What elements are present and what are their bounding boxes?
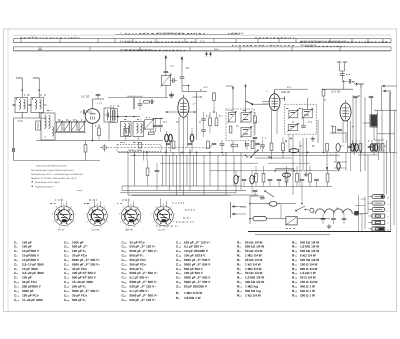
resistor R17 hang — [146, 161, 149, 187]
wire chassis h3 — [128, 194, 258, 196]
input coil L1 — [12, 98, 31, 113]
wire heater stubs — [244, 166, 328, 187]
svg-text:C₃₉: C₃₉ — [122, 285, 128, 289]
terminal T1 — [369, 195, 390, 200]
IF1 coil Lc — [240, 126, 252, 138]
wire TR1 net — [374, 110, 397, 150]
capacitor C17 — [158, 119, 163, 133]
svg-text:C₂₁: C₂₁ — [64, 267, 70, 271]
svg-text:0,1 µF 250 V~: 0,1 µF 250 V~ — [184, 245, 204, 249]
svg-text:C₄₆: C₄₆ — [176, 254, 182, 258]
svg-text:C₆: C₆ — [14, 262, 18, 266]
capacitor C52 — [342, 214, 347, 225]
svg-text:1/4 MΩ 1 W: 1/4 MΩ 1 W — [184, 296, 201, 300]
svg-text:5000 pF „F“ 500 V~: 5000 pF „F“ 500 V~ — [130, 249, 158, 253]
label band switch — [128, 149, 143, 152]
svg-text:R₁₇: R₁₇ — [292, 245, 298, 249]
svg-text:10 pF/500 V: 10 pF/500 V — [22, 249, 40, 253]
wire TR1 left — [363, 122, 371, 124]
wire bus B1 — [118, 151, 397, 153]
wire left drops — [77, 144, 106, 191]
wire V2 right rail — [196, 92, 198, 141]
svg-text:Regelspannung 0 V: Regelspannung 0 V — [35, 185, 55, 188]
trimmer C19 box — [160, 73, 171, 86]
svg-text:500 pF KT 500 V: 500 pF KT 500 V — [72, 276, 97, 280]
resistor R1 left — [84, 145, 87, 153]
svg-text:UBF 80: UBF 80 — [125, 229, 134, 232]
svg-text:MAF: MAF — [38, 48, 43, 51]
dial scale band lines — [14, 35, 392, 51]
svg-text:500 pF F₀: 500 pF F₀ — [72, 298, 87, 302]
svg-text:100 Ω 1/4 W: 100 Ω 1/4 W — [300, 262, 318, 266]
wire V3 grid bar — [280, 96, 285, 100]
svg-text:R₆: R₆ — [237, 254, 241, 258]
oscillator coil L7 — [121, 122, 132, 141]
svg-text:C₁₃: C₁₃ — [14, 293, 20, 297]
antenna AN2 — [33, 78, 40, 98]
svg-text:C₅₀: C₅₀ — [176, 271, 182, 275]
terminal T6 — [369, 227, 390, 232]
svg-text:10 pF/500 V: 10 pF/500 V — [22, 254, 40, 258]
svg-text:30 pF FCo: 30 pF FCo — [130, 240, 145, 244]
svg-text:5000 pF „F“ 500 V~: 5000 pF „F“ 500 V~ — [130, 280, 158, 284]
svg-text:R₁₂: R₁₂ — [237, 280, 243, 284]
svg-text:C₁₀: C₁₀ — [14, 280, 20, 284]
svg-text:C₃: C₃ — [14, 249, 18, 253]
capacitor C31 pill — [169, 134, 173, 152]
svg-text:500 pF „F“: 500 pF „F“ — [72, 245, 88, 249]
service notes text block — [31, 165, 83, 189]
svg-text:Netzspannung 220 V~, Lautstärk: Netzspannung 220 V~, Lautstärkeregler au… — [31, 173, 83, 176]
wire V3 top to 60V — [275, 86, 308, 94]
pilot circle — [310, 208, 314, 212]
wire speaker branch — [374, 140, 384, 150]
resistor R11 — [282, 137, 285, 158]
svg-text:3000 pF: 3000 pF — [22, 289, 34, 293]
svg-text:Gemessen mit Röhrenvoltmeter: Gemessen mit Röhrenvoltmeter — [36, 165, 67, 168]
capacitor C30 pill — [165, 131, 169, 152]
IF transformer IF2 box — [285, 104, 317, 134]
fuse F1 — [250, 216, 267, 220]
parts list column 5 (R3-R15) — [237, 240, 264, 297]
svg-text:Abgleich: ZF 452 kHz, Messsend: Abgleich: ZF 452 kHz, Messsender über 10… — [31, 177, 77, 180]
svg-text:800 Ω 1/4 W: 800 Ω 1/4 W — [300, 267, 318, 271]
capacitor C51 — [331, 214, 336, 225]
svg-text:C₁₈: C₁₈ — [64, 254, 70, 258]
svg-text:500 pF F₀: 500 pF F₀ — [130, 254, 145, 258]
label choke — [336, 207, 339, 210]
svg-text:5000 pF „F“ 500 V: 5000 pF „F“ 500 V — [184, 276, 211, 280]
svg-text:C₁₅: C₁₅ — [64, 240, 70, 244]
wire chassis left stub — [121, 186, 123, 191]
svg-text:0,1 µF 250 V~: 0,1 µF 250 V~ — [130, 289, 150, 293]
svg-text:5000 pF „F“ 250 V~: 5000 pF „F“ 250 V~ — [72, 289, 100, 293]
svg-text:C₅₁: C₅₁ — [176, 276, 182, 280]
wire drops to chassis — [163, 149, 242, 195]
capacitor C32 pill — [190, 128, 194, 152]
wire power bottom bus — [248, 231, 391, 233]
svg-text:C₂₅: C₂₅ — [64, 285, 70, 289]
svg-text:630 pF „F“ 125 V~: 630 pF „F“ 125 V~ — [130, 245, 157, 249]
svg-text:500 kΩ 1/4 W: 500 kΩ 1/4 W — [300, 240, 319, 244]
potentiometer P1 — [234, 171, 240, 193]
svg-text:R₁₁: R₁₁ — [237, 276, 243, 280]
rectifier REC1 — [286, 217, 297, 229]
svg-text:30 pF FCo: 30 pF FCo — [72, 254, 87, 258]
svg-text:C₃₆: C₃₆ — [122, 271, 128, 275]
svg-text:1 MΩ 1/4 W: 1 MΩ 1/4 W — [245, 254, 262, 258]
capacitor C11 anode — [96, 94, 101, 99]
svg-text:C₁₂: C₁₂ — [14, 289, 20, 293]
svg-text:1 kΩ 1/4 W: 1 kΩ 1/4 W — [245, 293, 261, 297]
svg-text:C₅: C₅ — [14, 258, 18, 262]
terminal T4 — [369, 214, 389, 219]
svg-text:630 pF „F“ 125 V~: 630 pF „F“ 125 V~ — [184, 240, 211, 244]
svg-text:C₃₂: C₃₂ — [122, 254, 128, 258]
parts list column 2 (C15-C28) — [64, 240, 100, 301]
tube V3 UBF80 — [269, 91, 280, 111]
svg-text:150 Ω 1/4 W: 150 Ω 1/4 W — [300, 280, 318, 284]
svg-text:50 µF 250/300 V: 50 µF 250/300 V — [184, 285, 208, 289]
wire right extra verts — [334, 152, 351, 171]
capacitor C33 pill — [351, 140, 355, 151]
svg-text:5000 pF „F“ 500 V: 5000 pF „F“ 500 V — [184, 258, 211, 262]
tube socket S3 UBF 80 — [119, 199, 144, 232]
wire osc down — [165, 86, 167, 98]
svg-text:C₄₈: C₄₈ — [176, 262, 182, 266]
wire IF2 bottom — [285, 134, 300, 195]
IF2 coil La — [288, 109, 299, 119]
svg-text:R₂₈: R₂₈ — [292, 293, 298, 297]
svg-text:C₄₃: C₄₃ — [176, 240, 182, 244]
capacitor C1 left rail — [13, 148, 15, 152]
wire right horiz y133 — [377, 133, 395, 135]
dial scale tick marks — [14, 39, 392, 51]
svg-text:5 kΩ 1/4 W: 5 kΩ 1/4 W — [300, 254, 316, 258]
svg-text:500 pF F₀: 500 pF F₀ — [130, 267, 145, 271]
trimmer C7 — [63, 121, 71, 133]
wire AGC y97.5 — [108, 97, 168, 99]
wire IF1 bottoms — [233, 141, 246, 153]
wire bus B3 left end — [14, 160, 101, 162]
svg-text:R₄: R₄ — [237, 245, 241, 249]
wire F2 to grid — [182, 79, 189, 92]
wire right rails — [368, 91, 394, 232]
svg-text:C₃₁: C₃₁ — [122, 249, 128, 253]
wire trimmer row bottom — [36, 133, 163, 141]
wire V3 left leads — [262, 102, 269, 105]
wire AGC dashed — [100, 147, 212, 149]
IF1 resistor R8 — [229, 126, 232, 133]
svg-text:630 pF „F“ 125 V~: 630 pF „F“ 125 V~ — [130, 298, 157, 302]
tube socket S2 UCH 81 — [85, 199, 110, 232]
dial pointer arrow P1 — [205, 52, 208, 57]
wire right drops — [327, 133, 379, 172]
svg-text:C₂: C₂ — [14, 245, 18, 249]
svg-text:C₃₅: C₃₅ — [122, 267, 128, 271]
svg-text:C₂₂: C₂₂ — [64, 271, 70, 275]
svg-text:C₂₀: C₂₀ — [64, 262, 70, 266]
wire IF2 vert — [307, 98, 309, 110]
component value labels — [18, 66, 386, 157]
wire left rail — [13, 118, 15, 161]
svg-text:1 MΩ 1/10 W: 1 MΩ 1/10 W — [184, 291, 202, 295]
svg-text:C₄₀: C₄₀ — [122, 289, 128, 293]
svg-text:50 kΩ 1/4 W: 50 kΩ 1/4 W — [245, 249, 263, 253]
svg-text:5000 pF „F“ 250 V~: 5000 pF „F“ 250 V~ — [72, 262, 100, 266]
dial pointer arrow P2 — [209, 52, 212, 57]
svg-text:500 pF 500 V: 500 pF 500 V — [184, 267, 204, 271]
svg-text:C₁₈: C₁₈ — [169, 72, 172, 75]
label 1F — [193, 103, 197, 106]
wire sockets top link — [120, 193, 236, 196]
capacitor C23 — [201, 112, 206, 126]
coil L5 — [104, 108, 114, 122]
scan fold line — [7, 30, 9, 312]
wire bus B4 — [160, 162, 310, 164]
svg-text:100 pF: 100 pF — [22, 240, 32, 244]
svg-text:R₁₆: R₁₆ — [292, 240, 298, 244]
svg-text:10 pF/500 V: 10 pF/500 V — [22, 258, 40, 262]
svg-text:60 V: 60 V — [287, 86, 292, 89]
wire mains h 218 — [267, 218, 331, 220]
wire terminal feeds — [355, 197, 365, 230]
IF2 small cap — [301, 118, 306, 127]
label V2 UCH81 — [193, 95, 203, 99]
svg-text:100 pF F₀: 100 pF F₀ — [72, 249, 87, 253]
svg-text:1 kΩ 1/4 W: 1 kΩ 1/4 W — [245, 262, 261, 266]
svg-text:R₃: R₃ — [237, 240, 241, 244]
svg-text:250 pF/500 V: 250 pF/500 V — [22, 285, 42, 289]
capacitor C34 pill — [355, 144, 359, 151]
svg-text:R₅: R₅ — [237, 249, 241, 253]
svg-text:R₂₀: R₂₀ — [292, 258, 298, 262]
junction dots bus — [134, 152, 362, 159]
svg-text:R₁₈: R₁₈ — [292, 249, 298, 253]
capacitor C18 — [164, 61, 172, 75]
svg-text:R₉: R₉ — [237, 267, 241, 271]
svg-text:C₉: C₉ — [14, 276, 18, 280]
svg-text:UBF 80: UBF 80 — [281, 90, 291, 94]
svg-text:10+µF 350/385 V: 10+µF 350/385 V — [184, 249, 209, 253]
svg-text:C₂₄: C₂₄ — [64, 280, 70, 284]
parts list column 1 (C1-C14) — [14, 240, 44, 301]
svg-text:500 pF FCo: 500 pF FCo — [130, 258, 147, 262]
wire mains v-left — [249, 196, 251, 224]
svg-text:150 pF FCo: 150 pF FCo — [22, 293, 39, 297]
antenna AN1 — [16, 78, 23, 98]
capacitor C22 — [169, 92, 174, 96]
svg-text:C₄₄: C₄₄ — [176, 245, 182, 249]
wire power bottom bus 2 — [255, 234, 330, 236]
svg-text:9,5 11,7 15,1: 9,5 11,7 15,1 — [120, 40, 133, 43]
svg-text:C₁₆: C₁₆ — [64, 245, 70, 249]
resistor R12 — [322, 90, 325, 153]
capacitor C12 — [105, 113, 109, 118]
arrow down A3 — [326, 167, 328, 170]
svg-text:50 Ω 1/4 W: 50 Ω 1/4 W — [300, 276, 316, 280]
svg-text:UCL 82: UCL 82 — [331, 90, 341, 94]
svg-text:1 MΩ log: 1 MΩ log — [245, 285, 258, 289]
svg-text:C₈: C₈ — [14, 271, 18, 275]
svg-text:C₄₇: C₄₇ — [176, 258, 182, 262]
svg-text:Wellenschalter: Wellenschalter — [128, 149, 143, 152]
label L3 — [266, 90, 268, 93]
capacitor C35 pill — [370, 140, 374, 151]
svg-text:R₁₉: R₁₉ — [292, 254, 298, 258]
wire lamp-fuse link — [253, 190, 281, 218]
svg-text:1 MΩ 1/4 W: 1 MΩ 1/4 W — [245, 267, 262, 271]
svg-text:5000 pF „F“ 250 V~: 5000 pF „F“ 250 V~ — [72, 258, 100, 262]
svg-text:R₂₄: R₂₄ — [292, 276, 298, 280]
capacitor C16 — [153, 119, 158, 133]
oscillator coil L8 — [133, 122, 144, 141]
svg-text:R₁₄: R₁₄ — [237, 289, 243, 293]
svg-text:C₁₄: C₁₄ — [14, 298, 20, 302]
bypass pill cap — [283, 171, 291, 186]
label Regelspannung — [127, 95, 143, 98]
svg-text:C₁₇: C₁₇ — [64, 249, 70, 253]
wire demod h — [255, 157, 292, 159]
svg-text:15–40 pF 3000: 15–40 pF 3000 — [72, 280, 93, 284]
svg-text:100 pF 500 V: 100 pF 500 V — [184, 271, 204, 275]
svg-text:4,5–20 pF 3000: 4,5–20 pF 3000 — [22, 271, 44, 275]
resistor R6 — [209, 112, 212, 133]
wire heater row line — [210, 171, 340, 187]
potentiometer P2 — [250, 171, 256, 193]
svg-text:R₁₅: R₁₅ — [237, 293, 243, 297]
socket S4 wiring notes — [50, 200, 195, 226]
IF2 coil Lb — [301, 108, 313, 119]
terminal arrow right — [383, 90, 392, 92]
label 60 V a — [204, 86, 209, 89]
parts list column 6 (R16-R28) — [292, 240, 319, 297]
svg-text:C₅₂: C₅₂ — [176, 280, 182, 284]
svg-text:400 Ω 1 W: 400 Ω 1 W — [300, 285, 315, 289]
svg-text:EC 92: EC 92 — [58, 229, 65, 232]
tuning coil L3 — [41, 113, 55, 140]
ground G1 — [169, 94, 173, 99]
resistor R5 — [139, 142, 142, 148]
wire V1 cathode — [92, 123, 94, 141]
capacitor C24 — [201, 126, 206, 137]
svg-text:0,1 µF 250 V~: 0,1 µF 250 V~ — [130, 276, 150, 280]
svg-text:300 kΩ 1/4 W: 300 kΩ 1/4 W — [245, 280, 264, 284]
svg-text:3,5–13 pF 3000: 3,5–13 pF 3000 — [22, 262, 44, 266]
capacitor C21 — [180, 61, 185, 79]
svg-text:C₂₈: C₂₈ — [64, 298, 70, 302]
svg-text:R₁₀: R₁₀ — [237, 271, 243, 275]
svg-text:Alle Spannungen gegen Chassis: Alle Spannungen gegen Chassis gemessen — [31, 169, 74, 172]
svg-text:30 pF FCo: 30 pF FCo — [72, 293, 87, 297]
svg-text:100 pF: 100 pF — [22, 245, 32, 249]
coil box L6 — [111, 108, 118, 122]
svg-text:60 V: 60 V — [204, 86, 209, 89]
label 220 V — [240, 206, 248, 209]
wire choke out — [353, 150, 384, 232]
wire into IF1 a — [232, 86, 234, 112]
svg-text:C₃₀: C₃₀ — [122, 245, 128, 249]
svg-text:2,1 V: 2,1 V — [97, 102, 103, 105]
capacitor C37 top right — [353, 84, 373, 98]
wire into IF1 b — [244, 84, 246, 112]
capacitor C26 — [245, 144, 250, 150]
dial lamp LA1 — [266, 201, 280, 206]
wire output misc — [330, 127, 347, 134]
band switch dashed box — [117, 145, 161, 152]
terminal T3 — [369, 208, 389, 213]
svg-text:100 pF: 100 pF — [22, 276, 32, 280]
capacitor C10 grid — [80, 110, 92, 115]
wire IF1 to V3 — [252, 103, 268, 105]
wire mid drops 2 — [303, 120, 318, 172]
svg-text:200 Ω 1 W: 200 Ω 1 W — [300, 293, 315, 297]
parts list column 4 (C43-C53, R1-R2) — [176, 240, 211, 299]
svg-text:25 kΩ 1/4 W: 25 kΩ 1/4 W — [245, 258, 263, 262]
trimmer C6 — [55, 121, 63, 133]
wire selector — [238, 207, 247, 215]
svg-text:C₅₃: C₅₃ — [176, 285, 182, 289]
svg-text:L₃: L₃ — [266, 90, 268, 93]
resistor R3 top — [144, 101, 150, 104]
resistor R7 — [215, 112, 218, 126]
capacitor C49 mains — [260, 196, 265, 199]
svg-text:R₂₆: R₂₆ — [292, 285, 298, 289]
capacitor C20 — [171, 78, 178, 83]
svg-text:10 pF 3000: 10 pF 3000 — [22, 267, 38, 271]
tube V4 UCL82 — [340, 100, 351, 121]
wire R1 leads — [85, 141, 87, 161]
wire 60V a — [182, 91, 207, 93]
wire IF1 top link — [226, 86, 253, 105]
svg-text:UCL 82: UCL 82 — [158, 229, 166, 232]
svg-text:C₃₇: C₃₇ — [122, 276, 128, 280]
resistor group right — [326, 143, 384, 151]
heater chain resistors — [242, 174, 329, 183]
svg-text:C₃₈: C₃₈ — [122, 280, 128, 284]
wire L5 down — [108, 122, 110, 141]
detector coil pill — [289, 149, 299, 153]
resistor R16 diode load — [253, 112, 258, 152]
label 21 v — [97, 102, 103, 105]
svg-text:R₂₂: R₂₂ — [292, 267, 298, 271]
capacitor C25 — [220, 140, 225, 150]
arrow down-right — [352, 81, 358, 85]
terminal T5 — [369, 220, 389, 225]
svg-text:200 pF F₀: 200 pF F₀ — [72, 285, 87, 289]
svg-text:C₂₉: C₂₉ — [122, 240, 128, 244]
wire output top rail — [322, 88, 353, 90]
resistor R4 — [148, 132, 154, 135]
svg-text:R₈: R₈ — [237, 262, 241, 266]
svg-text:1,5 kΩ 1 W: 1,5 kΩ 1 W — [300, 271, 316, 275]
capacitor C36 pill — [374, 144, 378, 151]
svg-text:100 µF 15/18 V: 100 µF 15/18 V — [184, 254, 206, 258]
svg-text:C₂₆: C₂₆ — [64, 289, 70, 293]
wire bus B2 — [130, 154, 340, 156]
svg-text:C₄: C₄ — [14, 254, 18, 258]
input coil L2 — [29, 98, 47, 113]
svg-text:5000 pF „F“ 500 V~: 5000 pF „F“ 500 V~ — [130, 271, 158, 275]
wire V4 pins — [343, 121, 348, 153]
capacitor C50 — [321, 214, 326, 225]
svg-text:C₂₇: C₂₇ — [64, 293, 70, 297]
svg-text:500 kΩ 1/4 W: 500 kΩ 1/4 W — [245, 245, 264, 249]
tube V2 UCH81 — [178, 95, 189, 117]
dial scale frequency labels — [20, 32, 387, 51]
svg-text:600 Ω 1 W: 600 Ω 1 W — [300, 289, 315, 293]
svg-text:R₂₇: R₂₇ — [292, 289, 298, 293]
